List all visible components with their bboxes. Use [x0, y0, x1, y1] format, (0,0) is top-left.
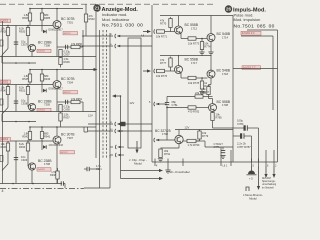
wire to output T stage1 — [196, 38, 207, 40]
wire interstage 2-3 — [60, 112, 62, 127]
node rail-R1b — [41, 8, 43, 10]
node rail-T1 — [56, 8, 58, 10]
output transistor label stage2 — [217, 69, 231, 73]
transistor T773 BC 548B — [207, 70, 215, 78]
label +5 — [249, 177, 253, 181]
svg-text:12V: 12V — [130, 101, 135, 105]
wire U jack block3 — [84, 127, 88, 132]
svg-text:22k R786: 22k R786 — [195, 91, 207, 95]
switch contact block3 — [2, 164, 8, 171]
wire resistor R545 top stub — [29, 70, 31, 85]
wire T2 emitter block1 — [31, 52, 33, 57]
subtitle Mod. indicateur — [102, 17, 130, 22]
wire T775 emitter chain — [213, 112, 234, 129]
wire Impuls frame bottom edge — [152, 161, 278, 163]
svg-text:R941: R941 — [44, 135, 51, 139]
wire emitter up stage1 — [178, 16, 180, 27]
svg-text:C928: C928 — [21, 102, 28, 106]
wire R790 to rail — [196, 141, 205, 147]
transistor label T4 — [38, 100, 52, 104]
wire resistor R930 stubs — [7, 141, 9, 164]
svg-text:R770: R770 — [160, 22, 167, 26]
wire row3 vertical feed — [120, 96, 122, 179]
node rail-R2b — [41, 69, 43, 71]
svg-text:Modul: Modul — [134, 162, 142, 166]
wire supply rail block3 — [30, 126, 96, 128]
wire Impuls frame left edge — [151, 5, 153, 162]
connector plug row7 — [115, 153, 120, 157]
svg-text:C927: C927 — [21, 43, 28, 47]
svg-text:C783: C783 — [237, 122, 244, 126]
svg-text:C787 R787: C787 R787 — [237, 145, 251, 149]
test point red label left edge block2 — [0, 80, 11, 84]
svg-text:R779: R779 — [202, 134, 209, 138]
wire resistor R543 stubs — [7, 85, 9, 108]
wire output collector stage2 — [210, 70, 212, 71]
node inter-band 2a — [15, 121, 17, 123]
wire left module far-left vertical — [2, 21, 4, 184]
node rail-R1a — [29, 8, 31, 10]
node base rail left3 — [7, 140, 9, 142]
connector input stage1 — [154, 29, 159, 33]
wire R786 link — [167, 96, 213, 98]
wire bus vertical 1 — [95, 12, 97, 158]
pulse waveform symbol — [246, 187, 249, 191]
pin digit row4 — [110, 122, 113, 124]
part number No.7501 085 00 — [234, 23, 275, 29]
wire Impuls right rail — [232, 16, 234, 163]
capacitor C938 box — [59, 105, 71, 112]
svg-text:L6 1: L6 1 — [223, 165, 228, 168]
svg-text:R542: R542 — [22, 135, 29, 139]
resistor R938 — [50, 171, 59, 179]
subtitle Indicator mod. — [102, 12, 127, 17]
transistor T4 BC 238B — [28, 103, 35, 110]
arrow to Mono-Brumm-Modul — [257, 166, 260, 190]
wire cap C784 branch — [222, 147, 224, 150]
transistor sublabel 7304 — [67, 80, 73, 84]
wire T774 base — [156, 139, 175, 141]
svg-text:C938: C938 — [64, 108, 71, 112]
connector input stage3 pin5 — [154, 102, 159, 106]
wire resistor R542 top stub — [29, 127, 31, 141]
svg-text:R777: R777 — [160, 61, 167, 65]
wire bus vertical 2 — [99, 30, 101, 188]
svg-text:R921: R921 — [19, 89, 26, 93]
resistor R543 — [1, 86, 10, 95]
ground divider stage2 — [199, 92, 204, 95]
wire row6 tail — [121, 146, 125, 148]
output transistor label stage1 — [217, 32, 231, 36]
dashed bus line 2 — [106, 30, 108, 159]
node divider stage1 — [201, 38, 203, 40]
wire capacitor C923 branch — [15, 141, 17, 184]
wire pin 4b stub — [258, 159, 260, 167]
output transistor sublabel stage1 — [222, 35, 228, 39]
svg-text:21: 21 — [95, 6, 100, 11]
output transistor label stage3 — [217, 100, 231, 104]
part number No.7501 030 00 — [102, 23, 143, 29]
voltage label red block1 T2 — [37, 49, 51, 53]
wire bottom rail block3 — [0, 183, 62, 185]
svg-text:ESM12 D817: ESM12 D817 — [49, 29, 64, 32]
node inter-band 1b — [28, 62, 30, 64]
resistor R941 — [40, 132, 50, 139]
ground pin 1a — [165, 170, 170, 173]
wire R bias stub stage1 — [170, 17, 172, 32]
transistor T1 BC 307B — [53, 21, 61, 29]
svg-text:1708: 1708 — [222, 103, 228, 107]
dashed page top edge line — [0, 3, 213, 5]
wire pin 2 stub — [273, 159, 275, 167]
svg-text:ESM12 D517: ESM12 D517 — [49, 88, 64, 91]
arrow to NF-Umschalter 1 — [121, 169, 164, 172]
svg-text:2xV201 0,0: 2xV201 0,0 — [242, 32, 255, 35]
resistor R937 — [59, 113, 70, 122]
transistor label T6 — [38, 159, 52, 163]
svg-text:1712: 1712 — [191, 26, 197, 30]
wire C781 input — [156, 103, 167, 105]
wire R782 row — [167, 107, 208, 109]
resistor R950 — [71, 42, 83, 49]
wire row1 to Impuls module — [118, 35, 153, 37]
node row3 — [120, 95, 122, 97]
voltage label red block3 mid — [60, 151, 75, 155]
shielded socket +5 — [248, 171, 255, 175]
resistor R921 — [19, 86, 30, 95]
connector plug row2 — [115, 44, 120, 48]
resistor R545 — [22, 74, 31, 82]
wire stage1 out col — [210, 16, 212, 32]
svg-text:R545: R545 — [22, 77, 29, 81]
node rail-R2a — [29, 69, 31, 71]
pin digit row5 — [110, 129, 113, 131]
svg-text:6V/2C2: 6V/2C2 — [61, 152, 69, 154]
module number badge 21 — [93, 4, 100, 11]
title Impuls-Mod. — [233, 8, 266, 14]
arrow to Flip-Flop-Modul — [135, 141, 138, 154]
node rail-R3b — [41, 126, 43, 128]
transistor label stage2 — [185, 58, 199, 62]
wire pin 4 stub — [154, 159, 156, 167]
transistor sublabel 7305 — [44, 103, 50, 107]
wire pin 1a stub — [167, 159, 169, 167]
text z.Mono-Brumm-Modul — [243, 193, 263, 200]
svg-text:R774: R774 — [204, 45, 211, 49]
transistor T5 BC 307B — [53, 136, 61, 144]
output transistor sublabel 1708 — [222, 103, 228, 107]
wire C787 to pin — [251, 136, 253, 162]
resistor R985 — [40, 13, 50, 20]
svg-text:6V/2C2: 6V/2C2 — [64, 92, 72, 94]
wire T1 collector block1 — [56, 9, 58, 21]
transistor T771 BC 548B — [207, 34, 215, 42]
edge label stub block2 — [0, 99, 3, 105]
text z. Flip-Flop-Modul — [129, 158, 147, 166]
svg-text:Mod. impulsion: Mod. impulsion — [234, 17, 261, 22]
capacitor C784 — [221, 151, 225, 153]
capacitor C787 — [240, 133, 242, 138]
wire output row 2 — [80, 45, 113, 47]
wire base rail block3 — [0, 140, 53, 142]
module number badge 26 — [225, 5, 232, 12]
node rail-T2 — [56, 69, 58, 71]
svg-text:R934: R934 — [19, 145, 26, 149]
wire Impuls frame right edge — [277, 30, 279, 162]
wire R bias stub stage2 — [170, 57, 172, 72]
svg-text:C923: C923 — [21, 158, 28, 162]
transistor label T1 — [61, 17, 75, 21]
wire bottom rail inner — [205, 146, 233, 148]
cable channel rectangle — [128, 38, 141, 148]
resistor R790 — [187, 139, 200, 147]
wire pin 6 stub — [265, 159, 267, 167]
transistor sublabel 7307 — [67, 136, 73, 140]
pin label 6 — [267, 165, 269, 168]
transistor T6 BC 238B — [28, 163, 35, 170]
wire inner top wire — [241, 36, 273, 110]
connector input stage2 — [154, 69, 159, 73]
transistor label T2 — [38, 41, 52, 45]
svg-text:47k R950: 47k R950 — [71, 42, 83, 46]
svg-text:1708: 1708 — [44, 162, 50, 166]
wire pin161 links — [221, 147, 274, 159]
wire Impuls frame top right — [247, 29, 278, 31]
wire bottom rail block1 — [0, 56, 96, 58]
resistor R771 — [156, 30, 168, 39]
svg-text:R985: R985 — [44, 16, 51, 20]
transistor T2 BC 238B — [28, 44, 35, 51]
wire bus vertical 3 — [109, 33, 111, 158]
transistor sublabel 1708 — [44, 162, 50, 166]
resistor R779 — [200, 81, 211, 89]
svg-text:10k R778: 10k R778 — [188, 81, 200, 85]
svg-text:Mod. indicateur: Mod. indicateur — [102, 17, 130, 22]
connector base BC327 pin3 — [154, 138, 159, 142]
resistor R826 — [22, 13, 31, 21]
rail label 12V — [185, 125, 190, 129]
wire base stage2 — [165, 70, 175, 72]
capacitor C941 — [87, 167, 89, 171]
wire resistor R946 stubs — [41, 70, 43, 93]
transistor label BC327 — [155, 129, 171, 133]
svg-text:470 R782: 470 R782 — [188, 109, 200, 113]
wire pin 5 stub — [251, 159, 253, 167]
wire stage3 12V rail — [175, 129, 233, 131]
svg-text:10k R773: 10k R773 — [188, 42, 200, 46]
cable label 12V — [88, 114, 93, 118]
wire collector path stage1 — [181, 34, 188, 39]
wire C781 vertical — [166, 97, 168, 141]
svg-text:4CO3D D943: 4CO3D D943 — [49, 144, 64, 147]
resistor R920 — [19, 27, 30, 36]
wire resistor R826 top stub — [29, 9, 31, 26]
svg-text:R785: R785 — [216, 116, 223, 120]
subtitle Mod. impulsion — [234, 17, 261, 22]
svg-text:7308: 7308 — [44, 44, 50, 48]
resistor R797 — [203, 87, 210, 95]
pin digit row2 — [111, 44, 113, 46]
output transistor sublabel stage2 — [222, 72, 228, 76]
svg-text:2xV202: 2xV202 — [38, 51, 46, 53]
voltage note 4,8 — [141, 36, 145, 38]
svg-text:No.7501 085 00: No.7501 085 00 — [234, 23, 275, 29]
wire T773 emitter chain — [209, 78, 212, 87]
node b1 row1 — [82, 35, 84, 37]
wire base rail block2 — [0, 84, 53, 86]
wire T1 collector block3 — [56, 127, 58, 136]
wire base stage1 — [165, 31, 175, 33]
arrow block2 rail to bus — [83, 68, 98, 71]
transistor sublabel 7301 — [67, 20, 73, 24]
resistor R946 — [40, 74, 50, 81]
wire row5 to module — [118, 130, 153, 132]
svg-text:12V: 12V — [185, 125, 190, 129]
connector plug row4 — [115, 122, 120, 126]
svg-text:C2/202: C2/202 — [1, 82, 9, 84]
switch contact block2 — [2, 108, 8, 115]
wire row7 tail — [121, 154, 125, 156]
node b1 row2 — [82, 45, 84, 47]
voltage label red block1 mid — [63, 32, 78, 36]
wire collector drop block1 — [82, 30, 84, 47]
wire inter-band link 2 — [2, 114, 36, 122]
resistor R774 — [200, 42, 211, 50]
capacitor C783 polarized — [244, 125, 246, 130]
transistor T770 BC 558B — [175, 26, 183, 34]
wire output collector stage1 — [210, 32, 212, 34]
wire C783 to pin — [258, 128, 260, 162]
node inter-band 1a — [15, 62, 17, 64]
arrow FM switching a — [264, 166, 267, 178]
diode D817 — [43, 29, 63, 34]
svg-text:R938: R938 — [50, 174, 57, 177]
svg-text:47k R951: 47k R951 — [71, 97, 83, 101]
capacitor C928 — [14, 99, 28, 106]
wire output row5 — [88, 130, 113, 132]
wire resistor R934 stubs — [27, 141, 29, 167]
transistor sublabel 7308 — [44, 44, 50, 48]
wire bottom rail block2 — [0, 111, 96, 113]
wire stage2 rail — [160, 55, 211, 57]
wire base rail block1 — [0, 25, 53, 27]
title Anzeige-Mod. — [102, 7, 139, 13]
text z. NF-Umschalter — [166, 170, 190, 174]
node base rail mid3 — [27, 140, 29, 142]
wire resistor R985 stubs — [41, 9, 43, 32]
page background — [0, 0, 280, 210]
resistor R776 — [156, 69, 168, 78]
node rail-R3a — [29, 126, 31, 128]
capacitor C927 — [14, 40, 28, 47]
wire T1 emitter block1 — [56, 29, 58, 57]
svg-text:4: 4 — [2, 189, 4, 193]
wire collector path stage2 — [181, 73, 188, 78]
node inter-band 2b — [28, 121, 30, 123]
wire pin 1b stub — [230, 159, 232, 167]
svg-text:C78L: C78L — [172, 103, 179, 107]
wire capacitor C927 branch — [15, 26, 17, 57]
pin digit 5 stage3 — [149, 101, 151, 104]
resistor R932 — [84, 14, 95, 22]
node C781 R782 — [166, 107, 168, 109]
pin label 5 4 — [253, 165, 255, 168]
wire resistor R921 stubs — [27, 85, 29, 108]
wire connector row7 — [110, 154, 113, 156]
switch contact block1 — [2, 49, 8, 56]
resistor R542 — [22, 132, 31, 140]
wire T774 collector — [161, 144, 180, 148]
wire R790 row — [183, 140, 200, 141]
wire R797 to T775 — [209, 95, 213, 104]
svg-text:C937: C937 — [64, 53, 71, 57]
page fold number 4 — [2, 189, 4, 193]
edge label stub block3 — [0, 156, 3, 162]
pin label 2 — [275, 165, 277, 168]
svg-text:R828: R828 — [1, 30, 8, 34]
transistor T774 BC 327/25 — [175, 135, 183, 143]
resistor R778 — [188, 76, 200, 85]
resistor R786 — [195, 91, 207, 98]
wire stage2 out col — [179, 56, 212, 72]
wire inter-band link 1 — [2, 55, 36, 63]
wire T774 emitter up — [178, 130, 180, 136]
transistor label T3 — [61, 77, 75, 81]
wire R779 stubs — [199, 130, 201, 142]
capacitor C923 — [14, 155, 28, 162]
wire bottom L to connector — [63, 155, 110, 188]
svg-text:Modul: Modul — [249, 197, 257, 201]
svg-text:R826: R826 — [22, 16, 29, 20]
diode D517 — [43, 88, 63, 93]
svg-text:1792: 1792 — [162, 132, 168, 136]
node divider stage2 — [201, 77, 203, 79]
capacitor C781 — [165, 100, 178, 107]
transistor T3 BC 307B — [53, 81, 61, 89]
svg-text:7305: 7305 — [44, 103, 50, 107]
edge label stub block1 — [0, 40, 3, 46]
wire T2 emitter block2 — [31, 110, 33, 113]
svg-text:R932: R932 — [89, 17, 96, 21]
wire divider stub stage2 — [201, 78, 203, 91]
svg-text:R791: R791 — [164, 152, 171, 156]
node base rail mid1 — [27, 25, 29, 27]
wire R938 stubs — [57, 168, 59, 184]
wire capacitor C928 branch — [15, 85, 17, 112]
svg-text:1714: 1714 — [222, 35, 228, 39]
subtitle Pulse mod. — [234, 13, 254, 18]
wire T1 emitter block2 — [56, 89, 58, 112]
ground divider stage1 — [199, 52, 204, 55]
ground C784 — [220, 156, 225, 159]
wire T1 collector block2 — [56, 70, 58, 81]
resistor R934 — [19, 142, 30, 151]
cable label 12Vb — [130, 101, 135, 105]
resistor R785 — [211, 113, 222, 121]
capacitor label C941 — [96, 165, 102, 171]
resistor R777 — [160, 58, 172, 67]
wire emitter up stage2 — [178, 55, 180, 66]
svg-text:C2/202: C2/202 — [1, 139, 9, 141]
wire railB1 to arrow row — [82, 57, 84, 70]
wire resistor R828 stubs — [7, 26, 9, 49]
capacitor label 2.2n C787 — [237, 142, 251, 149]
wire output row4 — [88, 123, 113, 125]
resistor R936a — [59, 57, 70, 65]
wire connector row6 — [110, 146, 113, 148]
transistor sublabel stage1 — [191, 26, 197, 30]
arrow input stage1 — [143, 30, 151, 33]
